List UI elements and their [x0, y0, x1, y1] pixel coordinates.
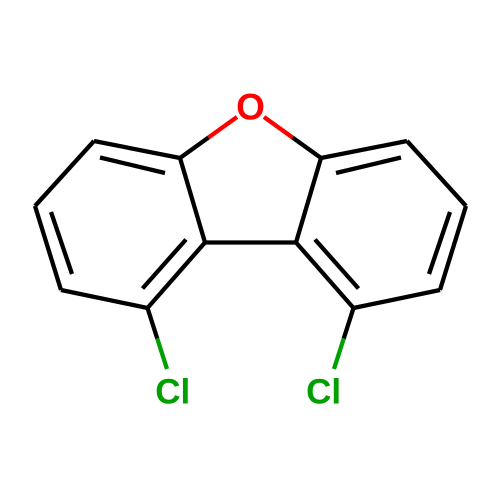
bond C2-C9 inner double line	[336, 158, 401, 174]
bond O-C2 black half	[293, 138, 322, 159]
bond C1-C5 inner double line	[100, 158, 165, 174]
bond O-C1 black half	[180, 138, 209, 159]
bond C8-Cl1 green half	[157, 339, 167, 370]
bond C12-Cl2 green half	[334, 339, 344, 370]
bond C1-C5	[94, 141, 180, 158]
bond C6-C7	[35, 206, 61, 290]
bond C6-C7 inner double line	[51, 212, 72, 274]
bond C8-C3 inner double line	[143, 240, 187, 289]
bond C2-C4	[296, 158, 321, 243]
bond C12-C4 inner double line	[315, 240, 359, 289]
bond C10-C11 inner double line	[429, 212, 450, 274]
bond C12-Cl2 black half	[344, 308, 354, 339]
bond C7-C8	[61, 290, 148, 308]
bond C5-C6	[35, 141, 94, 206]
bond C1-C3	[180, 158, 205, 243]
bond C11-C12	[354, 290, 441, 308]
bond C2-C9	[321, 141, 407, 158]
bond C3-C4 central	[205, 240, 296, 244]
bond C10-C11	[440, 206, 466, 290]
svg-text:Cl: Cl	[306, 373, 341, 412]
bond O-C1 red half	[209, 117, 238, 138]
svg-text:Cl: Cl	[155, 373, 190, 412]
bond C8-C3	[148, 243, 206, 309]
svg-text:O: O	[236, 86, 265, 127]
bond C9-C10	[407, 141, 466, 206]
bond C12-C4	[296, 243, 354, 309]
bond C8-Cl1 black half	[148, 308, 158, 339]
bond O-C2 red half	[264, 117, 293, 138]
